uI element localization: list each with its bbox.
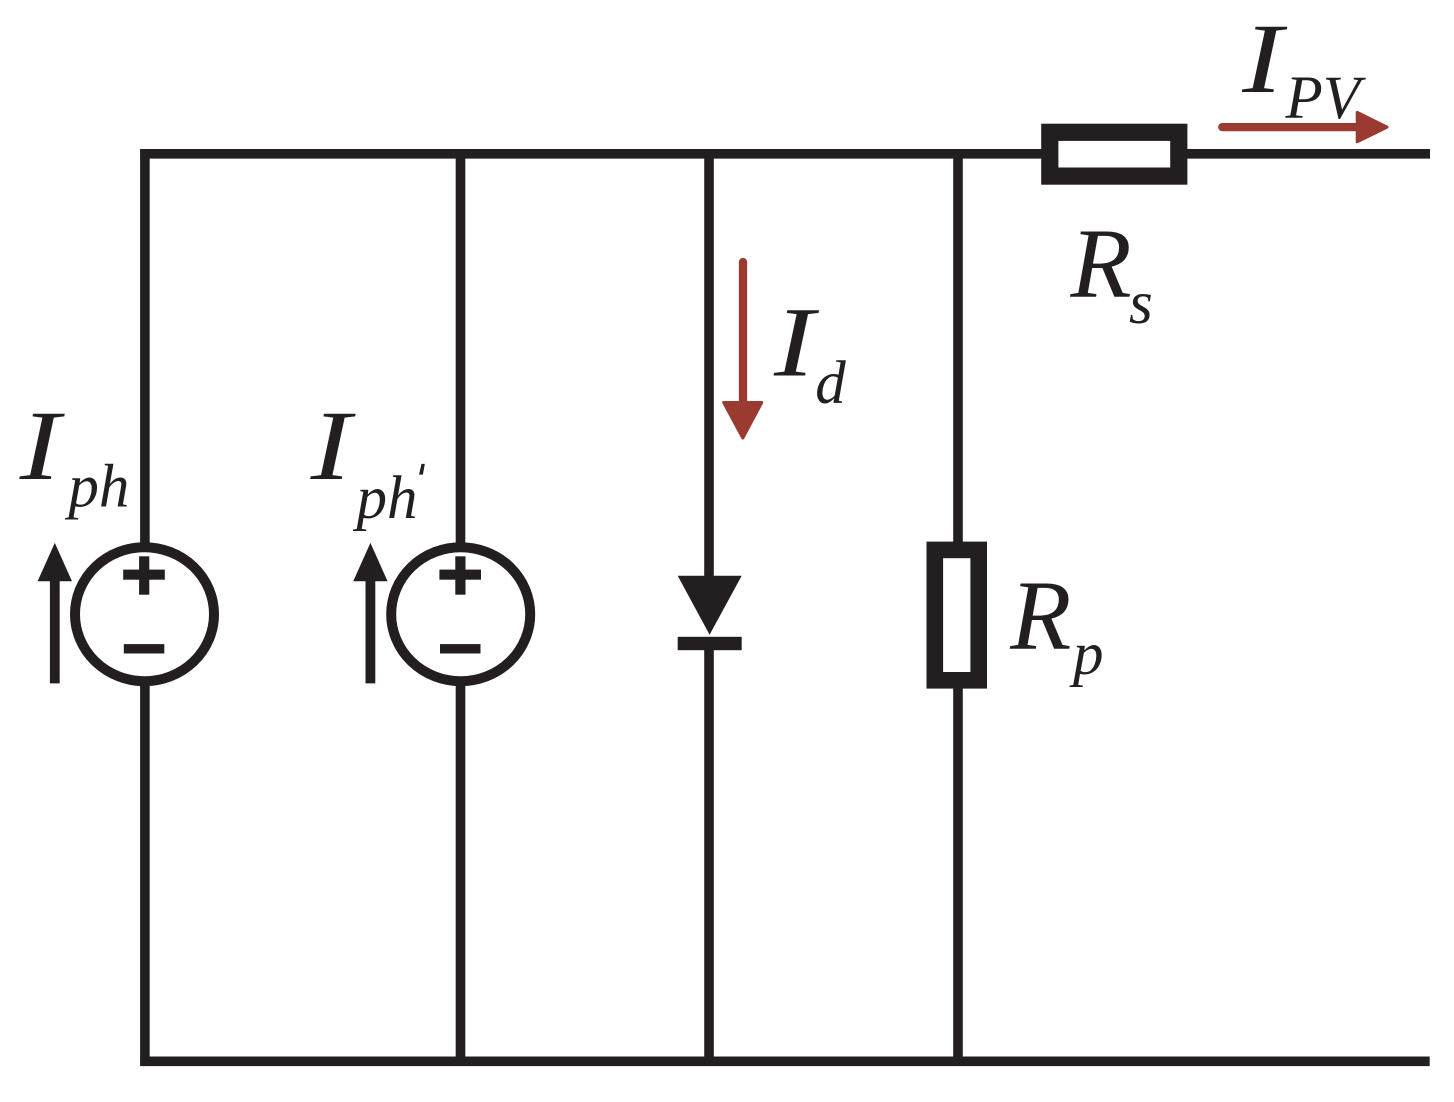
arrow for Iph'	[353, 543, 387, 684]
arrow for Iph	[38, 543, 72, 684]
current source Iph circle	[75, 547, 214, 681]
label Iph'	[310, 391, 357, 502]
wire Rp branch	[953, 149, 963, 1066]
svg-text:I: I	[1241, 4, 1288, 115]
svg-text:d: d	[815, 350, 846, 417]
svg-text:s: s	[1129, 270, 1153, 337]
label Iph	[19, 391, 66, 502]
wire branch Iph'	[456, 149, 466, 1066]
diode D triangle	[678, 576, 742, 635]
arrow IPV (red)	[1222, 112, 1387, 141]
svg-text:ph: ph	[353, 465, 418, 532]
resistor Rp	[935, 550, 979, 680]
diode D cathode bar	[678, 637, 742, 650]
svg-text:I: I	[773, 287, 820, 398]
svg-text:ph: ph	[64, 453, 129, 520]
wire top bus	[140, 149, 1430, 159]
current source Iph' circle	[391, 547, 530, 681]
wire diode branch upper	[704, 149, 714, 580]
svg-text:R: R	[1009, 560, 1071, 671]
resistor Rs	[1050, 132, 1179, 176]
svg-text:I: I	[19, 391, 66, 502]
wire diode branch lower	[704, 644, 714, 1066]
label Iph' prime mark	[419, 464, 425, 475]
svg-text:I: I	[310, 391, 357, 502]
label Id	[773, 287, 820, 398]
svg-text:PV: PV	[1285, 65, 1367, 132]
arrow Id (red)	[724, 262, 762, 438]
label IPV	[1241, 4, 1288, 115]
wire left branch Iph	[140, 149, 150, 1066]
wire bottom bus	[140, 1057, 1429, 1067]
svg-text:R: R	[1070, 207, 1132, 318]
svg-text:p: p	[1069, 621, 1104, 688]
